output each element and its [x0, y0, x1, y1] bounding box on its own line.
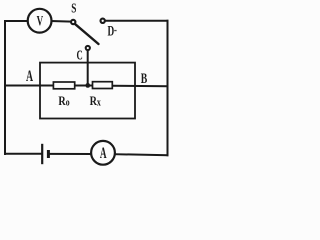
resistor Rx body	[93, 82, 113, 89]
terminal D	[101, 19, 105, 23]
svg-text:Ro: Ro	[58, 94, 70, 108]
black box enclosure	[40, 63, 135, 119]
wire left vertical	[4, 21, 6, 154]
ammeter A circle	[91, 141, 115, 165]
svg-text:A: A	[100, 143, 107, 161]
wire bottom-left to battery	[5, 153, 41, 155]
terminal C	[86, 46, 90, 50]
svg-text:Rx: Rx	[90, 94, 102, 108]
terminal S	[71, 20, 75, 24]
switch blade from S	[75, 24, 98, 44]
svg-text:D: D	[107, 22, 114, 39]
svg-text:B: B	[141, 70, 148, 87]
wire D to top-right corner	[105, 20, 168, 22]
wire right vertical	[167, 21, 169, 155]
wire ammeter to bottom-right corner	[115, 154, 168, 155]
wire voltmeter to S	[51, 20, 71, 23]
wire Rx to right vertical (node B)	[112, 85, 167, 88]
svg-text:A: A	[26, 67, 34, 85]
resistor R0 body	[53, 82, 74, 89]
svg-text:C: C	[76, 47, 82, 63]
svg-text:S: S	[71, 0, 76, 16]
battery long plate	[41, 144, 43, 164]
wire R0 to Rx through junction	[75, 85, 93, 87]
wire A to R0	[5, 85, 53, 87]
small dash after D	[114, 30, 116, 31]
battery short plate	[47, 150, 50, 158]
wire battery to ammeter	[49, 153, 91, 155]
voltmeter V circle	[28, 9, 52, 33]
junction node between R0 and Rx	[85, 83, 90, 88]
wire C terminal down to junction	[87, 50, 89, 85]
svg-text:V: V	[37, 12, 44, 29]
wire top-left horizontal to voltmeter	[5, 20, 28, 22]
